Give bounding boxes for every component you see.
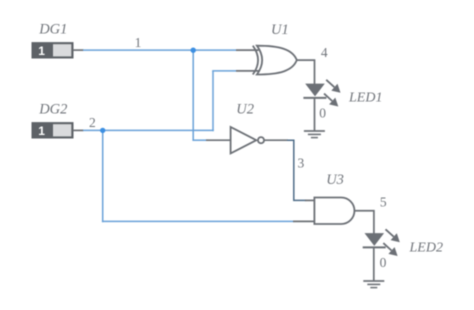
wire net0 LED1 to ground [314, 98, 316, 131]
wire net2 vertical down [102, 130, 104, 222]
svg-text:LED2: LED2 [409, 241, 443, 256]
digital input DG1 [32, 43, 84, 59]
XOR gate U1 [253, 46, 297, 75]
junction net1 [191, 48, 196, 53]
svg-text:0: 0 [319, 105, 326, 120]
pin stub U3 input A [305, 199, 315, 201]
wire net2 vertical up [212, 71, 214, 131]
svg-text:0: 0 [380, 255, 387, 270]
wire net1 to U2 input [192, 139, 208, 141]
LED LED2 [363, 229, 400, 256]
svg-text:5: 5 [380, 195, 387, 210]
junction net2 [100, 128, 105, 133]
svg-text:3: 3 [298, 156, 305, 171]
digital input DG2 [32, 123, 84, 139]
wire net4 U1 output to LED1 [297, 60, 315, 84]
pin stub U1 input A [236, 49, 259, 51]
wire net0 LED2 to ground [373, 247, 375, 281]
pin stub U1 input B [236, 70, 259, 72]
svg-text:1: 1 [38, 44, 45, 58]
svg-text:U1: U1 [271, 22, 289, 38]
wire net5 U3 output to LED2 [354, 211, 374, 234]
wire net2 bottom run to U3.B [102, 220, 294, 222]
wire net1 DG1 to U1.A [83, 49, 236, 51]
AND gate U3 [314, 198, 354, 225]
wire net2 to U1.B [212, 70, 236, 72]
svg-text:LED1: LED1 [348, 91, 382, 106]
wire net3 U2 to U3.A [287, 140, 306, 200]
wire net2 DG2 horizontal [83, 129, 214, 131]
NOT gate U2 [231, 127, 264, 153]
ground at LED2 [363, 281, 384, 288]
svg-text:DG1: DG1 [38, 22, 67, 38]
ground at LED1 [304, 131, 325, 138]
wire net1 vertical drop [192, 50, 194, 140]
svg-text:U3: U3 [326, 172, 344, 188]
svg-text:DG2: DG2 [38, 102, 67, 118]
svg-text:U2: U2 [236, 101, 254, 117]
svg-text:1: 1 [38, 124, 45, 138]
pin stub U3 input B [293, 220, 315, 222]
svg-text:4: 4 [321, 45, 328, 60]
svg-text:1: 1 [135, 35, 142, 50]
pin stub U2 output [264, 139, 288, 141]
LED LED1 [303, 80, 340, 107]
pin stub U2 input [206, 139, 232, 141]
svg-text:2: 2 [89, 115, 96, 130]
